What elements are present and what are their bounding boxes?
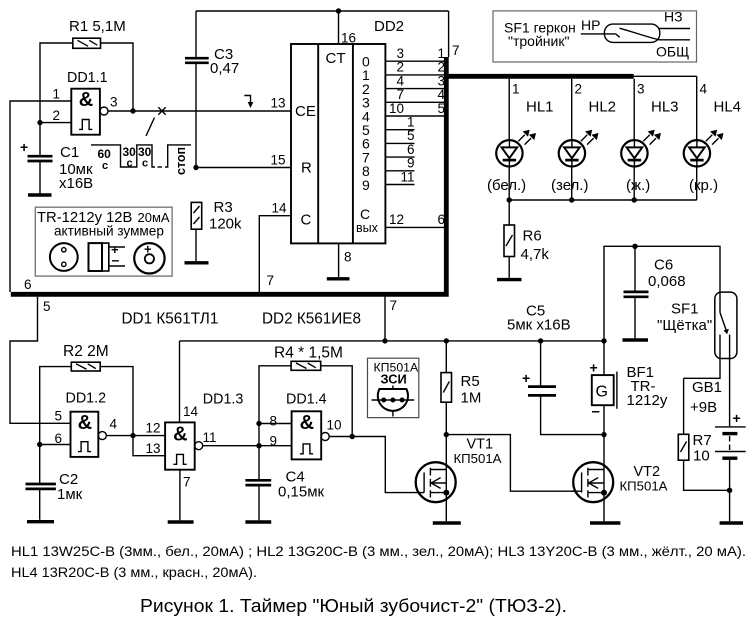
svg-text:DD1.2: DD1.2 bbox=[66, 391, 107, 407]
svg-text:10: 10 bbox=[327, 418, 342, 433]
svg-text:КП501А: КП501А bbox=[620, 479, 668, 494]
svg-text:13: 13 bbox=[270, 96, 285, 111]
svg-text:3: 3 bbox=[110, 95, 118, 110]
svg-text:5: 5 bbox=[437, 101, 445, 116]
svg-text:R3: R3 bbox=[214, 199, 233, 216]
svg-text:+: + bbox=[20, 139, 28, 155]
svg-text:60: 60 bbox=[98, 147, 112, 161]
svg-text:GB1: GB1 bbox=[692, 379, 722, 396]
svg-text:11: 11 bbox=[203, 430, 217, 445]
svg-text:(ж.): (ж.) bbox=[626, 177, 650, 194]
svg-text:HL3: HL3 bbox=[651, 99, 679, 116]
svg-text:с: с bbox=[127, 158, 133, 170]
svg-text:11: 11 bbox=[400, 169, 414, 184]
svg-text:8: 8 bbox=[344, 250, 352, 265]
svg-text:х16В: х16В bbox=[59, 175, 93, 192]
svg-text:10: 10 bbox=[693, 448, 710, 465]
svg-text:&: & bbox=[78, 412, 92, 434]
svg-text:с: с bbox=[102, 160, 108, 172]
svg-text:DD1.1: DD1.1 bbox=[67, 70, 108, 86]
svg-text:15: 15 bbox=[270, 153, 285, 168]
svg-text:HL4: HL4 bbox=[714, 99, 742, 116]
svg-text:HL2: HL2 bbox=[589, 99, 617, 116]
svg-text:6: 6 bbox=[54, 431, 62, 446]
svg-text:8: 8 bbox=[269, 414, 277, 429]
svg-text:ОБЩ: ОБЩ bbox=[656, 44, 689, 60]
svg-text:4: 4 bbox=[110, 417, 118, 432]
svg-text:НР: НР bbox=[581, 17, 600, 33]
svg-text:+9В: +9В bbox=[690, 399, 717, 416]
svg-text:SF1: SF1 bbox=[671, 301, 699, 318]
svg-text:0,15мк: 0,15мк bbox=[278, 484, 325, 501]
svg-text:5: 5 bbox=[43, 299, 51, 314]
svg-text:(кр.): (кр.) bbox=[689, 177, 718, 194]
svg-text:НЗ: НЗ bbox=[664, 9, 683, 25]
svg-text:14: 14 bbox=[183, 404, 199, 419]
svg-text:"тройник": "тройник" bbox=[508, 33, 569, 49]
svg-text:1мк: 1мк bbox=[57, 486, 83, 503]
svg-text:3: 3 bbox=[637, 82, 645, 97]
svg-text:HL1 13W25C-B (3мм., бел., 20м: HL1 13W25C-B (3мм., бел., 20мА) ; HL2 13… bbox=[11, 544, 746, 559]
svg-text:с: с bbox=[142, 158, 148, 170]
svg-text:4: 4 bbox=[700, 82, 708, 97]
svg-text:7: 7 bbox=[267, 273, 275, 288]
svg-text:Рисунок 1. Таймер "Юный зубочи: Рисунок 1. Таймер "Юный зубочист-2" (ТЮЗ… bbox=[140, 596, 567, 616]
svg-text:–: – bbox=[592, 403, 600, 420]
svg-text:R1 5,1M: R1 5,1M bbox=[69, 18, 126, 35]
svg-text:5мк х16В: 5мк х16В bbox=[507, 317, 571, 334]
svg-text:DD1.4: DD1.4 bbox=[286, 392, 327, 408]
svg-text:(бел.): (бел.) bbox=[487, 177, 526, 194]
svg-text:R2 2M: R2 2M bbox=[63, 343, 109, 360]
svg-text:12: 12 bbox=[145, 421, 160, 436]
svg-text:2: 2 bbox=[575, 82, 583, 97]
svg-text:ЗСИ: ЗСИ bbox=[381, 372, 407, 387]
svg-text:активный зуммер: активный зуммер bbox=[54, 224, 164, 239]
svg-text:&: & bbox=[173, 424, 187, 446]
svg-text:CE: CE bbox=[295, 103, 316, 120]
svg-text:13: 13 bbox=[145, 441, 160, 456]
svg-text:120k: 120k bbox=[209, 216, 242, 233]
svg-text:9: 9 bbox=[362, 177, 370, 193]
svg-text:+: + bbox=[590, 360, 598, 376]
svg-text:HL4 13R20C-B (3 мм., красн.: HL4 13R20C-B (3 мм., красн., 20мА). bbox=[11, 565, 257, 580]
svg-text:R4 * 1,5M: R4 * 1,5M bbox=[274, 345, 343, 362]
svg-text:0,47: 0,47 bbox=[210, 60, 239, 77]
svg-text:–: – bbox=[112, 252, 120, 268]
svg-text:VT1: VT1 bbox=[467, 436, 494, 452]
svg-text:9: 9 bbox=[269, 434, 277, 449]
svg-text:&: & bbox=[79, 89, 93, 111]
svg-text:+: + bbox=[144, 242, 152, 257]
svg-text:6: 6 bbox=[437, 212, 445, 227]
svg-text:7: 7 bbox=[390, 298, 398, 313]
svg-text:12: 12 bbox=[389, 212, 404, 227]
svg-text:1M: 1M bbox=[461, 390, 482, 407]
svg-text:C1: C1 bbox=[60, 144, 79, 161]
svg-text:DD2 К561ИЕ8: DD2 К561ИЕ8 bbox=[262, 311, 361, 328]
svg-text:4,7k: 4,7k bbox=[521, 246, 550, 263]
svg-text:С: С bbox=[360, 206, 370, 222]
svg-text:вых: вых bbox=[356, 221, 379, 235]
svg-text:R: R bbox=[301, 160, 312, 177]
svg-text:1212у: 1212у bbox=[627, 392, 668, 409]
svg-text:2: 2 bbox=[52, 108, 60, 123]
svg-text:7: 7 bbox=[452, 43, 460, 58]
svg-text:14: 14 bbox=[271, 201, 287, 216]
svg-text:DD1.3: DD1.3 bbox=[203, 392, 244, 408]
svg-text:стоп: стоп bbox=[174, 147, 188, 175]
svg-text:R7: R7 bbox=[693, 432, 712, 449]
svg-text:7: 7 bbox=[183, 475, 191, 490]
svg-text:+: + bbox=[733, 410, 741, 426]
svg-text:C: C bbox=[301, 212, 312, 229]
svg-text:"Щётка": "Щётка" bbox=[657, 317, 712, 334]
svg-text:CT: CT bbox=[326, 50, 346, 67]
svg-text:R5: R5 bbox=[461, 373, 480, 390]
svg-text:1: 1 bbox=[512, 82, 520, 97]
svg-text:DD1 К561ТЛ1: DD1 К561ТЛ1 bbox=[122, 311, 219, 328]
svg-text:HL1: HL1 bbox=[526, 99, 554, 116]
svg-text:&: & bbox=[300, 412, 314, 434]
svg-text:(зел.): (зел.) bbox=[551, 177, 588, 194]
svg-text:+: + bbox=[522, 370, 530, 386]
svg-text:16: 16 bbox=[341, 31, 356, 46]
svg-text:10: 10 bbox=[389, 101, 404, 116]
svg-text:0,068: 0,068 bbox=[648, 273, 686, 290]
svg-text:C6: C6 bbox=[654, 257, 673, 274]
svg-text:6: 6 bbox=[24, 277, 32, 292]
svg-text:5: 5 bbox=[54, 409, 62, 424]
svg-text:R6: R6 bbox=[523, 228, 542, 245]
svg-text:1: 1 bbox=[52, 87, 60, 102]
svg-text:G: G bbox=[596, 384, 608, 401]
svg-text:КП501А: КП501А bbox=[454, 451, 502, 466]
svg-text:DD2: DD2 bbox=[374, 18, 404, 35]
